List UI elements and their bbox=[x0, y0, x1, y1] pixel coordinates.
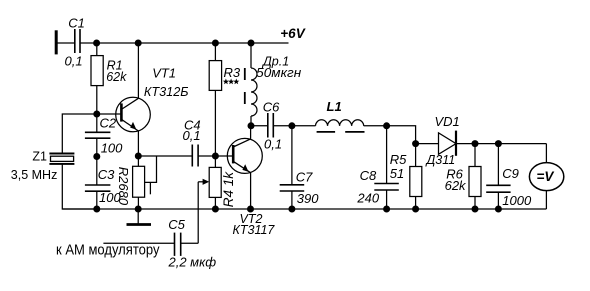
svg-text:C9: C9 bbox=[502, 166, 519, 181]
node C9-bottom bbox=[495, 206, 502, 213]
wire C8 to bottom rail bbox=[386, 190, 388, 209]
wire C5 right bbox=[181, 242, 199, 244]
node C8-bottom bbox=[383, 206, 390, 213]
svg-text:0,1: 0,1 bbox=[264, 136, 282, 151]
svg-text:R3: R3 bbox=[224, 65, 241, 80]
capacitor C4 bbox=[192, 145, 198, 167]
node R6-top bbox=[472, 140, 479, 147]
capacitor C5 bbox=[175, 233, 181, 256]
svg-text:1000: 1000 bbox=[502, 193, 532, 208]
node R5-bottom bbox=[412, 206, 419, 213]
node R4-bottom bbox=[212, 206, 219, 213]
wire node to R6 bbox=[474, 144, 476, 167]
svg-text:C5: C5 bbox=[168, 217, 185, 232]
svg-text:0,1: 0,1 bbox=[65, 53, 83, 68]
svg-text:100: 100 bbox=[101, 141, 123, 156]
svg-text:C8: C8 bbox=[360, 168, 377, 183]
node B (C2/C3) bbox=[93, 153, 100, 160]
svg-text:390: 390 bbox=[297, 191, 319, 206]
svg-text:L1: L1 bbox=[327, 99, 342, 114]
wire C3 to bottom rail bbox=[96, 191, 98, 209]
capacitor C9 bbox=[486, 185, 510, 192]
capacitor C1 bbox=[75, 29, 80, 53]
svg-text:50мкгн: 50мкгн bbox=[256, 66, 301, 80]
svg-text:C2: C2 bbox=[100, 116, 117, 131]
transistor VT2 bbox=[227, 138, 262, 173]
wire C1 to +6V rail bbox=[80, 42, 289, 44]
svg-text:C7: C7 bbox=[296, 169, 313, 184]
wire terminal to C1 bbox=[56, 42, 75, 44]
wire R4 wiper down to C5 bbox=[197, 182, 199, 244]
wire R1 to node A bbox=[96, 86, 98, 114]
wire R4 to bottom rail bbox=[214, 197, 216, 209]
svg-text:62k: 62k bbox=[106, 70, 127, 84]
wire node down to C8 bbox=[386, 126, 388, 184]
wire C9 to bottom rail bbox=[497, 192, 499, 209]
voltmeter V bbox=[529, 163, 563, 191]
wire choke to node bbox=[250, 116, 252, 126]
wire C4 to VT2 base node bbox=[198, 155, 233, 157]
L1 core dashes bbox=[317, 131, 365, 133]
capacitor C6 bbox=[268, 113, 274, 138]
node R1-top bbox=[93, 40, 100, 47]
svg-text:0,1: 0,1 bbox=[183, 128, 201, 143]
wire emitter node to C4 bbox=[138, 155, 192, 157]
node R6-bottom bbox=[472, 206, 479, 213]
wire voltmeter to bottom rail bbox=[545, 191, 547, 209]
svg-text:VT1: VT1 bbox=[152, 66, 176, 81]
svg-text:2,2 мкф: 2,2 мкф bbox=[168, 254, 217, 269]
wire node B to C3 bbox=[96, 157, 98, 186]
node C3-bottom bbox=[93, 206, 100, 213]
node VT2-collector / C6 bbox=[248, 122, 255, 129]
wire VT2 collector up bbox=[250, 126, 252, 139]
wire node down to C7 bbox=[291, 126, 293, 185]
wire node A to VT1 base bbox=[97, 113, 122, 115]
svg-text:C6: C6 bbox=[263, 100, 280, 115]
node R2-bottom / ground bbox=[135, 206, 142, 213]
bottom rail bbox=[62, 208, 546, 210]
svg-text:62k: 62k bbox=[445, 178, 467, 193]
svg-text:Д311: Д311 bbox=[425, 153, 456, 167]
wire C7 to bottom rail bbox=[291, 191, 293, 209]
node C7-top bbox=[288, 122, 295, 129]
svg-text:к АМ модулятору: к АМ модулятору bbox=[56, 241, 160, 258]
wire node A to crystal branch bbox=[62, 114, 97, 154]
crystal Z1 bbox=[49, 154, 74, 164]
wire node to R4 bbox=[214, 156, 216, 167]
choke core dashes bbox=[244, 68, 246, 104]
svg-text:Z1: Z1 bbox=[32, 149, 47, 163]
wire VT1 collector to rail bbox=[137, 43, 139, 98]
wire L1 to corner, down to diode row bbox=[364, 126, 416, 144]
node VT1-emitter bbox=[135, 153, 142, 160]
resistor R2 bbox=[133, 166, 145, 197]
VT1 emitter arrow bbox=[130, 122, 136, 130]
node VT2-emitter-bottom bbox=[247, 206, 254, 213]
wire C6 to C7 node bbox=[273, 125, 292, 127]
svg-text:R2680: R2680 bbox=[116, 167, 131, 206]
wire R6 to bottom rail bbox=[474, 197, 476, 210]
node A (VT1 base node) bbox=[93, 111, 100, 118]
svg-text:R5: R5 bbox=[390, 152, 407, 167]
capacitor C7 bbox=[280, 185, 305, 191]
wire R3 to VT2 base node bbox=[214, 90, 216, 156]
VT2 emitter arrow bbox=[242, 164, 248, 172]
diode VD1 bbox=[439, 133, 457, 154]
svg-text:C1: C1 bbox=[68, 16, 85, 31]
capacitor C2 bbox=[85, 132, 111, 138]
R4 wiper arrow bbox=[198, 181, 203, 183]
wire C5 to AM modulator bbox=[103, 242, 174, 244]
node choke-top bbox=[248, 40, 255, 47]
node C7-bottom bbox=[288, 206, 295, 213]
capacitor C8 bbox=[374, 184, 399, 191]
wire node down to C9 bbox=[497, 144, 499, 186]
wire crystal to bottom rail bbox=[62, 164, 97, 209]
svg-text:VD1: VD1 bbox=[435, 114, 460, 129]
node VT1-collector-top bbox=[135, 40, 142, 47]
wire node to R5 bbox=[415, 144, 417, 167]
wire R5 to bottom rail bbox=[415, 197, 417, 210]
input terminal bbox=[55, 30, 58, 54]
ground bbox=[137, 209, 139, 225]
resistor R3 bbox=[209, 61, 221, 91]
wire rail to choke bbox=[250, 43, 252, 68]
node R3-top bbox=[212, 40, 219, 47]
wire R2 to bottom rail bbox=[137, 197, 139, 209]
svg-text:51: 51 bbox=[390, 166, 404, 181]
svg-text:3,5 MHz: 3,5 MHz bbox=[11, 168, 58, 182]
svg-text:=V: =V bbox=[537, 169, 555, 184]
inductor L1 bbox=[316, 120, 364, 126]
wire node A to C2 bbox=[96, 114, 98, 132]
wire C2 to node B bbox=[96, 138, 98, 156]
svg-text:240: 240 bbox=[356, 190, 379, 205]
R2 wiper tap bbox=[145, 156, 157, 182]
svg-text:КТ3117: КТ3117 bbox=[233, 223, 276, 237]
svg-text:КТ312Б: КТ312Б bbox=[144, 85, 189, 99]
node VT2-base bbox=[212, 153, 219, 160]
node R5/diode anode bbox=[412, 140, 419, 147]
node C8-top bbox=[383, 122, 390, 129]
wire anode to diode bbox=[416, 143, 439, 145]
wire rail to R1 bbox=[96, 43, 98, 56]
label R3 stars bbox=[223, 79, 239, 85]
wire diode to voltmeter corner bbox=[456, 143, 546, 145]
svg-text:+6V: +6V bbox=[280, 26, 305, 41]
wire VT1 emitter down bbox=[137, 131, 139, 166]
wire node to L1 bbox=[292, 125, 316, 127]
resistor R4 (trimmer) bbox=[209, 167, 221, 197]
wire rail to R3 bbox=[214, 43, 216, 61]
svg-text:C3: C3 bbox=[98, 167, 115, 182]
transistor VT1 bbox=[116, 97, 151, 132]
resistor R5 bbox=[410, 167, 422, 197]
wire VT2 emitter to bottom rail bbox=[250, 173, 252, 209]
wire node to C6 bbox=[251, 125, 268, 127]
resistor R6 bbox=[469, 167, 481, 197]
svg-text:R4 1k: R4 1k bbox=[221, 171, 236, 208]
node C9-top bbox=[495, 140, 502, 147]
choke Dr.1 bbox=[251, 68, 257, 116]
capacitor C3 bbox=[85, 185, 111, 191]
wire to voltmeter top bbox=[545, 144, 547, 163]
resistor R1 bbox=[91, 56, 103, 86]
